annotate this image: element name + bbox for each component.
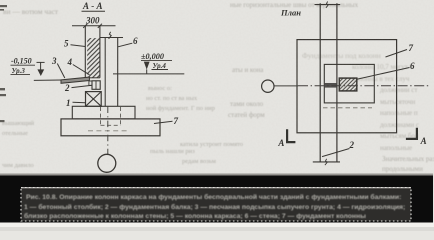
horizontal centerline [274,85,298,87]
hidden socket bottom dashed [101,124,121,126]
caption gray fringe above [0,174,433,176]
leader 2 [72,85,93,87]
hidden socket right dashed [120,107,122,125]
elevation mark left: top bar [37,61,45,63]
column 5: hatched body [87,38,100,78]
hidden socket left dashed [100,107,102,125]
svg-text:близко расположенные к колонна: близко расположенные к колоннам стены; 5… [24,212,366,220]
level Ур.4 underline [152,69,169,71]
ghost show-through text (page noise) [2,1,434,173]
wall outer face 6 [117,38,119,107]
wall break squiggle [109,32,112,39]
column section (hatched) [339,78,357,91]
wall inner face [104,38,106,107]
caption inner top line [21,187,411,189]
caption inner dashed border [21,188,411,222]
leader 7 plan [386,50,408,58]
wall right line [336,3,338,162]
axis circle plan [262,80,274,92]
elevation mark left: stem [40,62,42,69]
leader 1 [73,101,86,103]
elevation triangle left [37,69,44,76]
leader 5 [71,45,86,47]
ground level line right [113,73,184,75]
wall top tick [315,4,341,6]
bottom gray strip [0,227,434,231]
wall bottom break squiggle [325,159,327,165]
anchor box diagonal 1 [86,92,102,107]
anchor box diagonal 2 [86,92,102,107]
section mark A right bracket [406,128,417,139]
pedestal outline (inner square) [324,64,374,103]
paper grain overlay [0,0,434,175]
title underline [82,10,106,12]
support pad (dark) in wall [325,83,337,88]
base block divider [95,81,97,90]
leader 6 [118,43,132,47]
column 5: right edge [99,26,101,78]
wall left line [319,3,321,162]
anchor box 1 (square with X) [86,92,102,107]
level -0,150 underline [11,64,36,66]
column 5: left edge [84,26,86,78]
wall top break squiggle [326,2,328,8]
hidden line in slab [88,130,128,132]
foundation slab 7 [61,119,160,136]
floor level line left [34,79,62,81]
dark cropped text fragments on left edge [0,5,7,122]
foundation slab outline 7 (outer square) [297,40,397,133]
dimension tick left [83,24,87,28]
elevation stem right [146,69,148,73]
dimension line [72,25,116,27]
level Ур.3 underline [11,73,31,75]
svg-text:Рис. 10.8. Опирание колонн кар: Рис. 10.8. Опирание колонн каркаса на фу… [26,193,401,201]
leader 4 [73,65,90,75]
wall top edge [100,37,123,39]
leader 3 [57,64,65,79]
leader 2 plan [322,149,350,157]
caption text [24,193,405,220]
hidden dashed line below pedestal [323,107,372,109]
section mark A left bracket [287,129,295,142]
floor slab band 3 [61,77,89,83]
svg-text:1 — бетонный столбик; 2 — фунд: 1 — бетонный столбик; 2 — фундаментная б… [24,203,405,211]
dimension tick right [98,24,102,28]
wall bottom tick [313,161,340,163]
column 5: bottom edge [85,77,100,79]
centerline of column axis [107,107,109,155]
leader 7 [154,121,173,123]
leader 6 plan [357,68,410,80]
base block 2 [92,81,100,90]
level +0.000 underline [141,60,172,62]
base block small step [89,81,92,85]
white strip below caption [0,223,434,228]
axis circle [98,154,116,172]
elevation triangle right [144,62,150,70]
foundation pedestal [72,106,135,119]
caption black band [0,176,433,223]
